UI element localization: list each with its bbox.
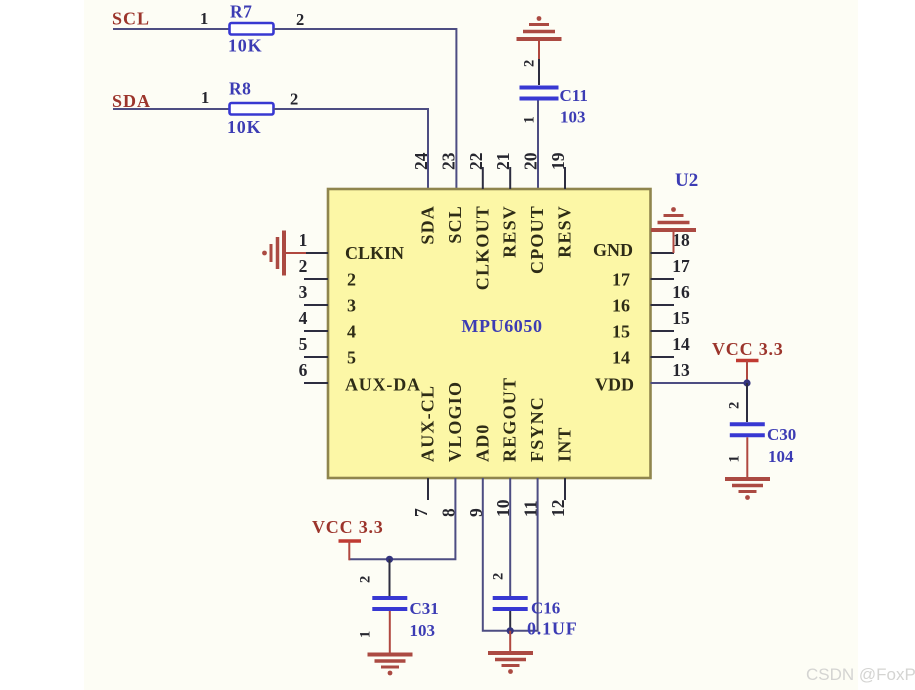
pin 2 stub (left) <box>304 278 328 280</box>
resistor R8 <box>230 103 274 115</box>
wire pin13 VDD to junction <box>651 382 748 384</box>
svg-text:2: 2 <box>299 256 308 276</box>
pin 12 stub (bottom) <box>564 478 566 500</box>
svg-text:REGOUT: REGOUT <box>500 377 520 462</box>
svg-text:1: 1 <box>522 116 538 123</box>
svg-text:U2: U2 <box>675 170 698 191</box>
pin 7 stub (bottom) <box>427 478 429 500</box>
pin 1 stub wire (red+dark) <box>284 252 307 254</box>
svg-text:10K: 10K <box>228 36 262 56</box>
svg-text:2: 2 <box>491 573 507 580</box>
svg-text:14: 14 <box>672 334 690 354</box>
svg-text:1: 1 <box>200 9 208 28</box>
svg-text:21: 21 <box>493 153 513 171</box>
wire to C11 top plate <box>538 59 540 85</box>
wire pin8 VLOGIO down and left <box>349 478 455 559</box>
svg-text:VDD: VDD <box>595 375 634 395</box>
svg-text:SDA: SDA <box>418 205 438 245</box>
ground (left of pin 1) <box>262 231 284 276</box>
ground (at pin 18) <box>651 207 696 230</box>
svg-text:3: 3 <box>347 296 356 316</box>
capacitor C31 <box>372 598 407 609</box>
pin 19 stub (top) <box>564 167 566 189</box>
wire pin18 to ground (red) <box>673 229 675 253</box>
capacitor C30 <box>730 424 765 435</box>
wire C16 pin1 to junction <box>509 611 511 631</box>
power VCC 3.3 (right) <box>712 339 784 383</box>
svg-text:R8: R8 <box>229 79 251 99</box>
svg-text:2: 2 <box>296 10 304 29</box>
svg-text:16: 16 <box>672 282 690 302</box>
svg-text:CPOUT: CPOUT <box>527 205 547 274</box>
svg-text:22: 22 <box>466 153 486 171</box>
wire pin11 FSYNC down to junction <box>510 478 537 631</box>
resistor R7 <box>230 23 274 35</box>
svg-text:5: 5 <box>299 334 308 354</box>
junction node C16/ground <box>507 627 514 634</box>
pin 21 stub (top) <box>509 167 511 189</box>
svg-text:MPU6050: MPU6050 <box>461 316 542 336</box>
wire ground to C11 pin2 (red) <box>538 40 540 60</box>
wire junction to C31 <box>389 559 391 596</box>
pin 3 stub (left) <box>304 304 328 306</box>
svg-text:C30: C30 <box>767 425 796 444</box>
pin 18 stub (right) <box>651 252 675 254</box>
junction node VDD <box>743 379 750 386</box>
svg-text:RESV: RESV <box>555 205 575 258</box>
svg-text:103: 103 <box>560 108 586 127</box>
svg-text:INT: INT <box>555 426 575 462</box>
svg-text:1: 1 <box>727 455 743 462</box>
svg-text:4: 4 <box>299 308 308 328</box>
svg-text:3: 3 <box>299 282 308 302</box>
wire SDA to R8 pin1 <box>113 108 230 110</box>
ground (below C16) <box>488 653 533 674</box>
svg-text:2: 2 <box>522 60 538 67</box>
wire pin9 AD0 down to junction <box>483 478 510 631</box>
pin 17 stub (right) <box>651 278 675 280</box>
svg-text:VCC 3.3: VCC 3.3 <box>712 339 784 359</box>
wire junction to ground (red) <box>509 631 511 653</box>
svg-text:20: 20 <box>521 152 541 170</box>
svg-text:5: 5 <box>347 348 356 368</box>
wire R7 pin2 to U2 pin23 <box>274 28 457 30</box>
svg-text:13: 13 <box>672 360 690 380</box>
svg-text:C11: C11 <box>560 86 588 105</box>
svg-text:1: 1 <box>358 631 374 638</box>
svg-text:19: 19 <box>548 152 568 170</box>
pin 22 stub (top) <box>482 167 484 189</box>
capacitor C11 <box>520 88 559 99</box>
svg-text:VLOGIO: VLOGIO <box>445 381 465 462</box>
svg-text:AD0: AD0 <box>472 423 492 462</box>
ground (below C31) <box>368 655 413 676</box>
wire C31 pin1 to ground (red) <box>389 611 391 655</box>
svg-text:C31: C31 <box>410 599 439 618</box>
svg-text:16: 16 <box>612 296 630 316</box>
svg-text:2: 2 <box>358 576 374 583</box>
svg-text:AUX-CL: AUX-CL <box>418 385 438 462</box>
pin 6 stub (left) <box>304 382 328 384</box>
svg-text:14: 14 <box>612 348 630 368</box>
svg-text:18: 18 <box>672 230 690 250</box>
svg-text:CLKIN: CLKIN <box>345 243 404 263</box>
svg-text:0.1UF: 0.1UF <box>527 619 578 639</box>
svg-text:SCL: SCL <box>445 205 465 244</box>
svg-text:15: 15 <box>612 322 630 342</box>
svg-text:VCC 3.3: VCC 3.3 <box>312 517 384 537</box>
svg-text:CSDN @FoxPilot: CSDN @FoxPilot <box>806 665 915 684</box>
svg-text:FSYNC: FSYNC <box>527 396 547 462</box>
svg-text:4: 4 <box>347 322 356 342</box>
op-amp U2 MPU6050 IC body <box>328 189 651 478</box>
svg-text:7: 7 <box>411 508 431 517</box>
wire C30 pin1 to ground (red) <box>746 437 748 479</box>
svg-text:17: 17 <box>672 256 690 276</box>
wire junction to C30 <box>746 383 748 422</box>
svg-text:RESV: RESV <box>500 205 520 258</box>
svg-text:2: 2 <box>727 402 743 409</box>
pin 15 stub (right) <box>651 330 675 332</box>
svg-text:AUX-DA: AUX-DA <box>345 375 421 395</box>
pin 14 stub (right) <box>651 356 675 358</box>
pin 16 stub (right) <box>651 304 675 306</box>
svg-text:2: 2 <box>347 270 356 290</box>
svg-text:104: 104 <box>768 447 794 466</box>
svg-text:2: 2 <box>290 90 298 109</box>
svg-text:103: 103 <box>410 621 436 640</box>
power VCC 3.3 (bottom) <box>312 517 384 560</box>
svg-text:1: 1 <box>299 230 308 250</box>
capacitor C16 <box>493 598 528 609</box>
svg-text:12: 12 <box>548 500 568 518</box>
junction node C31 <box>386 556 393 563</box>
svg-text:CLKOUT: CLKOUT <box>472 205 492 290</box>
svg-text:15: 15 <box>672 308 690 328</box>
wire pin10 REGOUT to C16 <box>509 478 511 596</box>
wire R8 pin2 to U2 pin24 <box>274 108 429 110</box>
wire C11 pin1 to U2 pin20 <box>537 101 539 190</box>
svg-text:23: 23 <box>438 152 458 170</box>
wire SCL to R7 pin1 <box>113 28 230 30</box>
svg-text:1: 1 <box>201 88 209 107</box>
svg-text:17: 17 <box>612 270 630 290</box>
svg-text:6: 6 <box>299 360 308 380</box>
svg-text:C16: C16 <box>531 599 560 618</box>
ground (below C30) <box>725 479 770 500</box>
pin 5 stub (left) <box>304 356 328 358</box>
pin 4 stub (left) <box>304 330 328 332</box>
ground (top, above C11) <box>517 16 562 39</box>
svg-text:SCL: SCL <box>112 9 150 29</box>
svg-text:GND: GND <box>593 240 633 260</box>
svg-text:10K: 10K <box>227 117 261 137</box>
svg-text:24: 24 <box>411 152 431 170</box>
svg-text:R7: R7 <box>230 2 252 22</box>
